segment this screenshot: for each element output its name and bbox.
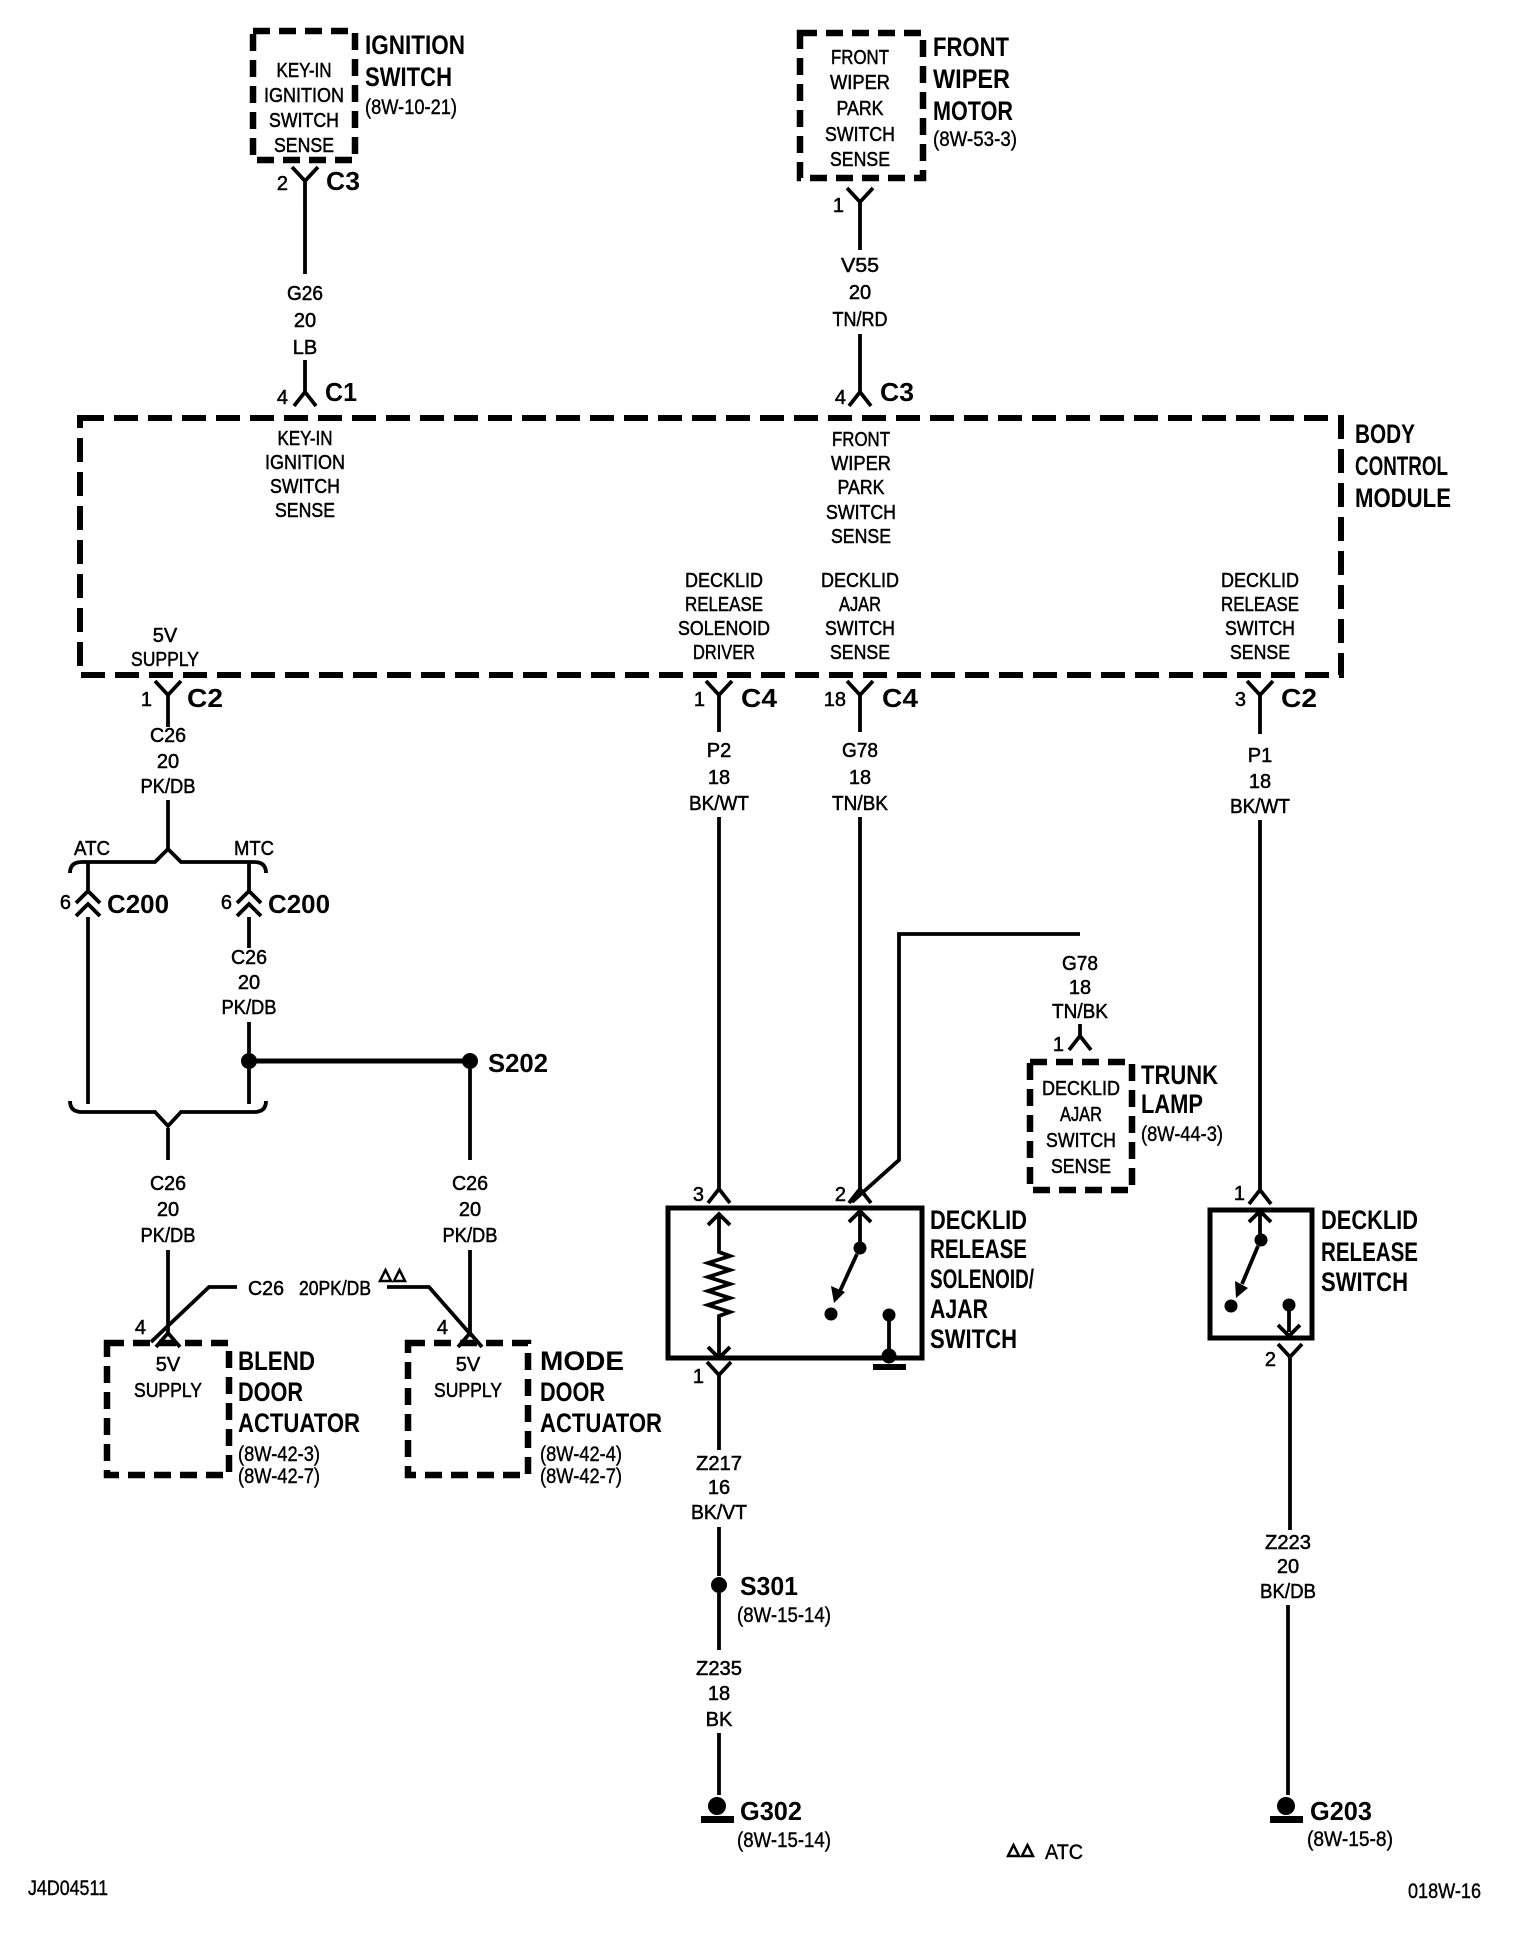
svg-text:(8W-42-4): (8W-42-4): [540, 1443, 622, 1466]
svg-text:2: 2: [1265, 1349, 1276, 1371]
svg-text:SWITCH: SWITCH: [825, 618, 895, 640]
svg-text:20: 20: [238, 972, 260, 994]
svg-text:AJAR: AJAR: [1060, 1104, 1102, 1126]
svg-text:TN/BK: TN/BK: [832, 793, 889, 815]
splice S301: [711, 1571, 831, 1627]
svg-text:(8W-42-7): (8W-42-7): [238, 1465, 320, 1488]
svg-text:RELEASE: RELEASE: [930, 1234, 1027, 1264]
svg-text:FRONT: FRONT: [831, 47, 889, 69]
pin 1 connector (front wiper motor): [833, 188, 873, 228]
svg-text:(8W-15-14): (8W-15-14): [737, 1604, 831, 1627]
wire C26 20 PK/DB (from BCM C2 pin 1): [141, 718, 196, 849]
svg-text:(8W-42-7): (8W-42-7): [540, 1465, 622, 1488]
svg-text:G302: G302: [740, 1796, 802, 1826]
ATC footnote marker: [1008, 1841, 1083, 1864]
svg-text:RELEASE: RELEASE: [1221, 594, 1299, 616]
svg-text:(8W-10-21): (8W-10-21): [365, 96, 457, 119]
svg-text:BODY: BODY: [1355, 419, 1415, 449]
svg-text:Z235: Z235: [696, 1658, 742, 1680]
svg-text:S202: S202: [488, 1048, 548, 1078]
svg-text:18: 18: [1249, 771, 1271, 793]
pin 4 (blend door actuator): [135, 1317, 180, 1347]
svg-text:(8W-42-3): (8W-42-3): [238, 1443, 320, 1466]
sheet code J4D04511: [28, 1877, 108, 1900]
wire C26 20 PK/DB (S202 to mode door actuator): [443, 1069, 498, 1333]
BCM pin 1 connector C4: [694, 681, 778, 718]
svg-text:018W-16: 018W-16: [1408, 1880, 1481, 1903]
wire Z217 16 BK/VT: [691, 1397, 747, 1576]
svg-text:PARK: PARK: [837, 98, 885, 120]
svg-text:(8W-15-14): (8W-15-14): [737, 1829, 831, 1852]
svg-text:20: 20: [157, 751, 179, 773]
wire V55 20 TN/RD: [833, 228, 888, 392]
svg-text:PK/DB: PK/DB: [141, 776, 196, 798]
svg-text:TN/RD: TN/RD: [833, 309, 888, 331]
svg-text:20: 20: [459, 1199, 481, 1221]
BCM label: [1355, 419, 1451, 513]
svg-text:DOOR: DOOR: [238, 1377, 303, 1407]
wire Z223 20 BK/DB: [1260, 1376, 1316, 1795]
ajar switch ground contact: [873, 1309, 906, 1371]
svg-text:IGNITION: IGNITION: [264, 85, 344, 107]
svg-text:DECKLID: DECKLID: [685, 570, 763, 592]
BCM pin name: decklid release switch sense: [1221, 570, 1299, 664]
svg-text:IGNITION: IGNITION: [365, 30, 465, 60]
svg-text:BK/WT: BK/WT: [1230, 796, 1290, 818]
svg-text:KEY-IN: KEY-IN: [278, 428, 333, 450]
svg-text:TN/BK: TN/BK: [1052, 1001, 1109, 1023]
svg-text:ATC: ATC: [1045, 1841, 1083, 1864]
svg-text:MODULE: MODULE: [1355, 483, 1451, 513]
pin 1 (solenoid bottom): [693, 1362, 731, 1397]
svg-text:4: 4: [135, 1317, 146, 1339]
svg-text:C200: C200: [268, 889, 330, 919]
svg-text:ACTUATOR: ACTUATOR: [238, 1408, 360, 1438]
leader line left (C26 label): [151, 1287, 237, 1342]
svg-text:C3: C3: [880, 377, 914, 407]
svg-text:(8W-44-3): (8W-44-3): [1141, 1123, 1223, 1146]
svg-text:J4D04511: J4D04511: [28, 1877, 108, 1900]
svg-text:3: 3: [693, 1184, 704, 1206]
svg-text:18: 18: [708, 1683, 730, 1705]
svg-text:C3: C3: [326, 166, 360, 196]
ground G302: [701, 1796, 831, 1852]
svg-text:18: 18: [708, 767, 730, 789]
ajar switch contacts: [825, 1211, 872, 1321]
svg-text:18: 18: [1069, 977, 1091, 999]
pin 1 (trunk lamp): [1053, 1034, 1091, 1056]
svg-text:FRONT: FRONT: [933, 32, 1009, 62]
wire label C26 20PK/DB: [248, 1278, 371, 1300]
svg-text:C26: C26: [248, 1278, 284, 1300]
svg-text:MTC: MTC: [234, 838, 274, 860]
branch wire to trunk lamp: [852, 934, 1080, 1202]
decklid release solenoid / ajar switch box: [668, 1208, 922, 1358]
merge brace: [70, 1101, 266, 1126]
svg-text:1: 1: [694, 689, 705, 711]
svg-text:18: 18: [849, 767, 871, 789]
svg-text:6: 6: [60, 892, 71, 914]
svg-text:MOTOR: MOTOR: [933, 96, 1013, 126]
pin 1 (decklid release switch): [1234, 1183, 1271, 1205]
decklid release switch label: [1321, 1205, 1418, 1297]
wire G78 18 TN/BK: [832, 718, 889, 1189]
pin 2 (decklid release switch bottom): [1265, 1344, 1302, 1376]
svg-text:SENSE: SENSE: [830, 642, 890, 664]
BCM pin name: decklid ajar switch sense: [821, 570, 899, 664]
svg-text:C26: C26: [150, 1173, 186, 1195]
svg-text:SWITCH: SWITCH: [825, 124, 895, 146]
BCM pin 3 connector C2: [1235, 681, 1317, 718]
svg-text:LAMP: LAMP: [1141, 1089, 1203, 1119]
svg-text:PK/DB: PK/DB: [141, 1225, 196, 1247]
svg-text:Z217: Z217: [696, 1453, 742, 1475]
pin 2 connector C3 (ignition switch): [277, 166, 360, 210]
svg-text:IGNITION: IGNITION: [265, 452, 345, 474]
svg-text:18: 18: [824, 689, 846, 711]
front wiper motor label: [933, 32, 1017, 151]
svg-text:P2: P2: [707, 740, 731, 762]
svg-text:DECKLID: DECKLID: [1321, 1205, 1418, 1235]
wire label G78 18 TN/BK (trunk lamp): [1052, 953, 1109, 1036]
svg-text:2: 2: [835, 1184, 846, 1206]
BCM pin name: key-in ignition switch sense: [265, 428, 345, 522]
wire (ATC branch down): [86, 917, 90, 1104]
svg-text:C4: C4: [741, 683, 778, 713]
svg-text:WIPER: WIPER: [933, 64, 1010, 94]
svg-text:20: 20: [157, 1199, 179, 1221]
svg-text:BLEND: BLEND: [238, 1346, 315, 1376]
svg-text:ATC: ATC: [74, 838, 110, 860]
sheet code 018W-16: [1408, 1880, 1481, 1903]
svg-text:SWITCH: SWITCH: [1046, 1130, 1116, 1152]
svg-text:SENSE: SENSE: [830, 149, 890, 171]
svg-text:LB: LB: [293, 337, 317, 359]
svg-text:3: 3: [1235, 689, 1246, 711]
svg-text:G203: G203: [1310, 1796, 1372, 1826]
svg-text:SENSE: SENSE: [1051, 1156, 1111, 1178]
svg-text:SWITCH: SWITCH: [270, 476, 340, 498]
svg-text:SENSE: SENSE: [274, 135, 334, 157]
svg-text:CONTROL: CONTROL: [1355, 451, 1448, 481]
svg-text:KEY-IN: KEY-IN: [277, 60, 332, 82]
wire P1 18 BK/WT: [1230, 718, 1290, 1190]
ignition switch (key-in ignition switch sense) box: [253, 31, 355, 160]
svg-text:20: 20: [294, 310, 316, 332]
svg-text:SWITCH: SWITCH: [930, 1324, 1017, 1354]
svg-text:6: 6: [221, 892, 232, 914]
svg-text:SUPPLY: SUPPLY: [134, 1380, 202, 1402]
svg-text:DOOR: DOOR: [540, 1377, 605, 1407]
svg-text:5V: 5V: [153, 625, 178, 647]
svg-text:4: 4: [437, 1317, 448, 1339]
decklid release switch box: [1210, 1210, 1312, 1338]
svg-text:C26: C26: [452, 1173, 488, 1195]
BCM pin name: front wiper park switch sense: [826, 429, 896, 548]
svg-text:20: 20: [849, 282, 871, 304]
svg-text:DECKLID: DECKLID: [1221, 570, 1299, 592]
svg-text:16: 16: [708, 1477, 730, 1499]
solenoid resistor element: [708, 1214, 730, 1358]
svg-text:C200: C200: [107, 889, 169, 919]
ground G203: [1270, 1796, 1393, 1851]
trunk lamp label: [1141, 1060, 1223, 1146]
wire P2 18 BK/WT: [689, 718, 749, 1189]
svg-text:P1: P1: [1248, 745, 1272, 767]
svg-text:G78: G78: [842, 740, 878, 762]
svg-text:DECKLID: DECKLID: [1042, 1078, 1120, 1100]
svg-text:AJAR: AJAR: [839, 594, 881, 616]
wire Z235 18 BK: [696, 1593, 742, 1795]
blend door actuator label: [238, 1346, 360, 1488]
pin 2 (decklid ajar switch): [835, 1184, 871, 1206]
decklid release switch contacts: [1225, 1211, 1301, 1336]
svg-text:C2: C2: [187, 683, 223, 713]
svg-text:BK: BK: [706, 1709, 733, 1731]
mode door actuator label: [540, 1346, 662, 1488]
decklid release solenoid/ajar switch label: [930, 1205, 1034, 1354]
pin 3 (decklid release solenoid): [693, 1184, 730, 1206]
wire C26 20 PK/DB (to blend door actuator): [141, 1128, 196, 1333]
svg-text:C4: C4: [882, 683, 919, 713]
svg-text:RELEASE: RELEASE: [685, 594, 763, 616]
BCM pin 18 connector C4: [824, 681, 919, 718]
svg-text:DECKLID: DECKLID: [821, 570, 899, 592]
splice brace ATC/MTC: [70, 838, 274, 873]
wire G26 20 LB: [287, 210, 323, 392]
ignition switch label: [365, 30, 465, 119]
svg-text:SUPPLY: SUPPLY: [434, 1380, 502, 1402]
ATC marker triangles: [380, 1270, 405, 1281]
svg-text:1: 1: [1234, 1183, 1245, 1205]
svg-text:1: 1: [141, 689, 152, 711]
svg-text:C26: C26: [150, 725, 186, 747]
front wiper park switch sense box: [800, 33, 923, 178]
svg-text:V55: V55: [841, 255, 879, 277]
svg-text:1: 1: [1053, 1034, 1064, 1056]
svg-text:1: 1: [693, 1366, 704, 1388]
svg-text:WIPER: WIPER: [830, 72, 890, 94]
svg-text:AJAR: AJAR: [930, 1294, 988, 1324]
splice S202: [241, 1048, 548, 1078]
svg-text:SOLENOID/: SOLENOID/: [930, 1264, 1034, 1294]
svg-text:5V: 5V: [156, 1354, 181, 1376]
svg-text:20PK/DB: 20PK/DB: [299, 1278, 371, 1300]
leader line right (to mode door actuator): [387, 1287, 472, 1336]
svg-text:4: 4: [277, 387, 288, 409]
BCM pin name: 5V supply: [131, 625, 199, 671]
svg-text:SUPPLY: SUPPLY: [131, 649, 199, 671]
svg-text:BK/DB: BK/DB: [1260, 1581, 1316, 1603]
svg-text:BK/VT: BK/VT: [691, 1502, 747, 1524]
pin 4 connector C3 (BCM top): [835, 377, 914, 409]
svg-text:PK/DB: PK/DB: [222, 997, 277, 1019]
svg-text:G26: G26: [287, 283, 323, 305]
svg-text:SWITCH: SWITCH: [365, 62, 452, 92]
svg-text:PK/DB: PK/DB: [443, 1225, 498, 1247]
svg-text:C26: C26: [231, 947, 267, 969]
svg-text:SWITCH: SWITCH: [826, 502, 896, 524]
body control module box: [80, 418, 1341, 675]
svg-text:S301: S301: [740, 1571, 798, 1601]
svg-text:2: 2: [277, 173, 288, 195]
svg-text:G78: G78: [1062, 953, 1098, 975]
svg-text:SWITCH: SWITCH: [1225, 618, 1295, 640]
svg-text:SENSE: SENSE: [1230, 642, 1290, 664]
wire (S202 left leg down): [247, 1069, 251, 1104]
trunk lamp box (decklid ajar switch sense): [1030, 1062, 1132, 1190]
wire C26 20 PK/DB (MTC branch): [222, 917, 277, 1053]
svg-text:20: 20: [1277, 1556, 1299, 1578]
svg-text:C1: C1: [325, 377, 357, 407]
svg-text:C2: C2: [1281, 683, 1317, 713]
svg-text:WIPER: WIPER: [831, 453, 891, 475]
svg-text:DECKLID: DECKLID: [930, 1205, 1027, 1235]
svg-text:PARK: PARK: [838, 477, 886, 499]
svg-text:4: 4: [835, 387, 846, 409]
svg-text:SWITCH: SWITCH: [269, 110, 339, 132]
connector C200 (MTC branch, pin 6): [221, 862, 330, 919]
svg-text:(8W-15-8): (8W-15-8): [1307, 1828, 1393, 1851]
BCM pin name: decklid release solenoid driver: [678, 570, 770, 664]
svg-text:FRONT: FRONT: [832, 429, 890, 451]
pin 4 connector C1 (BCM top): [277, 377, 357, 409]
svg-text:RELEASE: RELEASE: [1321, 1237, 1418, 1267]
svg-text:SWITCH: SWITCH: [1321, 1267, 1408, 1297]
pin 4 (mode door actuator): [437, 1317, 482, 1347]
svg-text:Z223: Z223: [1265, 1532, 1311, 1554]
svg-text:1: 1: [833, 195, 844, 217]
svg-text:SENSE: SENSE: [831, 526, 891, 548]
svg-text:MODE: MODE: [540, 1346, 624, 1376]
blend door actuator box (5V supply): [107, 1343, 229, 1475]
svg-text:ACTUATOR: ACTUATOR: [540, 1408, 662, 1438]
BCM pin 1 connector C2: [141, 681, 223, 718]
svg-text:SENSE: SENSE: [275, 500, 335, 522]
svg-text:SOLENOID: SOLENOID: [678, 618, 770, 640]
svg-text:TRUNK: TRUNK: [1141, 1060, 1218, 1090]
svg-text:BK/WT: BK/WT: [689, 793, 749, 815]
mode door actuator box (5V supply): [408, 1343, 528, 1475]
svg-text:(8W-53-3): (8W-53-3): [933, 128, 1017, 151]
svg-text:5V: 5V: [456, 1354, 481, 1376]
svg-text:DRIVER: DRIVER: [693, 642, 755, 664]
connector C200 (ATC branch, pin 6): [60, 862, 169, 919]
